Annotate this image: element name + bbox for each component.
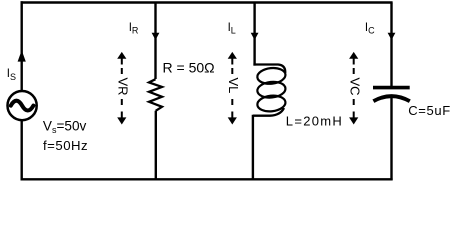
wire inductor branch upper bbox=[253, 3, 255, 66]
VR dash lower bbox=[121, 99, 123, 105]
svg-text:VC: VC bbox=[348, 78, 363, 96]
wire inductor branch lower bbox=[252, 115, 254, 180]
wire resistor branch lower bbox=[155, 111, 157, 180]
voltage indicator VR arrow up bbox=[117, 52, 126, 59]
wire capacitor branch upper bbox=[390, 3, 392, 87]
svg-text:IR: IR bbox=[129, 22, 139, 36]
svg-text:R = 50Ω: R = 50Ω bbox=[163, 59, 215, 75]
svg-text:f=50Hz: f=50Hz bbox=[43, 138, 88, 153]
wire capacitor branch lower bbox=[390, 96, 392, 180]
arrow IR (down) bbox=[152, 33, 160, 40]
capacitor C bottom curved plate bbox=[373, 96, 409, 101]
VL dash upper bbox=[231, 68, 233, 74]
AC source sine wave bbox=[11, 101, 34, 111]
VR dash upper bbox=[121, 68, 123, 74]
voltage indicator VC arrow down bbox=[349, 117, 358, 124]
svg-text:VR: VR bbox=[116, 78, 131, 96]
wire left lower segment bbox=[21, 121, 23, 180]
inductor L coil loops bbox=[257, 67, 287, 85]
svg-text:IC: IC bbox=[365, 22, 375, 36]
svg-text:VL: VL bbox=[226, 78, 241, 94]
arrow IL (down) bbox=[251, 33, 259, 40]
voltage indicator VL arrow up bbox=[228, 52, 237, 59]
voltage indicator VL arrow down bbox=[228, 117, 237, 124]
wire bottom rail bbox=[21, 178, 393, 180]
inductor L coil top lead bbox=[253, 65, 285, 74]
VC dash upper bbox=[353, 68, 355, 74]
svg-text:C=5uF: C=5uF bbox=[408, 103, 451, 118]
VL dash lower bbox=[231, 99, 233, 105]
VC dash lower bbox=[353, 99, 355, 105]
svg-text:L=20mH: L=20mH bbox=[286, 114, 343, 129]
wire top rail bbox=[21, 1, 393, 3]
voltage indicator VR arrow down bbox=[117, 117, 126, 124]
svg-text:IS: IS bbox=[7, 68, 16, 82]
arrow IS (up) on left wire bbox=[18, 50, 26, 61]
capacitor C top plate bbox=[373, 86, 410, 90]
wire left upper segment bbox=[21, 1, 23, 90]
arrow IC (down) bbox=[388, 33, 396, 40]
resistor R zigzag bbox=[149, 79, 162, 111]
svg-text:Vs=50v: Vs=50v bbox=[43, 119, 87, 135]
svg-text:IL: IL bbox=[228, 22, 236, 36]
inductor L coil bottom lead bbox=[253, 108, 284, 116]
wire resistor branch upper bbox=[154, 3, 156, 80]
voltage indicator VC arrow up bbox=[349, 52, 358, 59]
AC source V1 circle bbox=[8, 91, 37, 120]
